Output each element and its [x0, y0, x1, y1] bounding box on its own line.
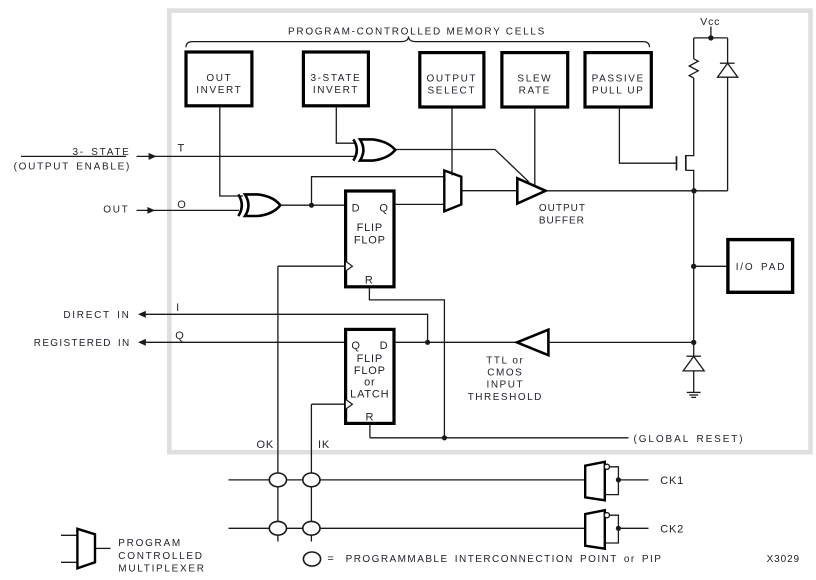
svg-text:3-STATE: 3-STATE: [310, 73, 361, 84]
svg-text:IK: IK: [318, 439, 330, 451]
svg-text:THRESHOLD: THRESHOLD: [468, 392, 543, 403]
svg-text:(OUTPUT ENABLE): (OUTPUT ENABLE): [14, 162, 131, 173]
svg-text:FLIP: FLIP: [357, 222, 383, 234]
svg-text:R: R: [365, 275, 374, 287]
svg-text:FLIP: FLIP: [357, 353, 383, 365]
svg-text:LATCH: LATCH: [350, 388, 389, 400]
svg-text:Q: Q: [175, 330, 184, 342]
svg-text:D: D: [380, 340, 389, 352]
svg-text:DIRECT IN: DIRECT IN: [63, 310, 130, 321]
svg-text:X3029: X3029: [767, 554, 800, 565]
svg-text:PROGRAM: PROGRAM: [118, 538, 182, 549]
svg-text:CMOS: CMOS: [487, 368, 523, 379]
svg-text:Q: Q: [379, 203, 388, 215]
svg-text:PROGRAM-CONTROLLED MEMORY CELL: PROGRAM-CONTROLLED MEMORY CELLS: [288, 27, 546, 38]
svg-text:FLOP: FLOP: [354, 365, 386, 377]
svg-text:Vcc: Vcc: [700, 16, 720, 28]
svg-text:INVERT: INVERT: [313, 85, 359, 96]
svg-text:PULL UP: PULL UP: [592, 86, 645, 97]
svg-text:INPUT: INPUT: [487, 380, 525, 391]
svg-text:D: D: [352, 203, 361, 215]
svg-text:RATE: RATE: [519, 86, 551, 97]
svg-text:Q: Q: [351, 340, 360, 352]
svg-text:=: =: [327, 553, 334, 565]
svg-text:FLOP: FLOP: [354, 235, 386, 247]
svg-text:I: I: [176, 302, 180, 314]
svg-text:BUFFER: BUFFER: [539, 216, 585, 227]
svg-text:PASSIVE: PASSIVE: [592, 73, 645, 84]
svg-text:I/O PAD: I/O PAD: [736, 262, 787, 273]
svg-text:OK: OK: [257, 439, 275, 451]
svg-text:OUT: OUT: [103, 204, 129, 215]
svg-text:or: or: [364, 376, 375, 388]
svg-text:SELECT: SELECT: [428, 86, 477, 97]
svg-text:CONTROLLED: CONTROLLED: [118, 551, 203, 562]
svg-text:OUT: OUT: [206, 73, 232, 84]
svg-text:CK2: CK2: [660, 523, 684, 535]
svg-text:REGISTERED IN: REGISTERED IN: [34, 338, 131, 349]
svg-text:MULTIPLEXER: MULTIPLEXER: [118, 563, 205, 574]
svg-text:INVERT: INVERT: [196, 85, 242, 96]
svg-text:TTL or: TTL or: [486, 355, 524, 366]
svg-text:O: O: [177, 199, 186, 211]
svg-text:3- STATE: 3- STATE: [72, 147, 130, 158]
svg-text:R: R: [366, 412, 375, 424]
svg-text:(GLOBAL RESET): (GLOBAL RESET): [634, 434, 745, 445]
svg-text:OUTPUT: OUTPUT: [539, 203, 586, 214]
svg-text:OUTPUT: OUTPUT: [426, 73, 477, 84]
svg-text:T: T: [178, 143, 186, 155]
svg-text:PROGRAMMABLE INTERCONNECTION P: PROGRAMMABLE INTERCONNECTION POINT or PI…: [346, 554, 663, 565]
svg-text:SLEW: SLEW: [517, 73, 552, 84]
svg-text:CK1: CK1: [660, 475, 684, 487]
